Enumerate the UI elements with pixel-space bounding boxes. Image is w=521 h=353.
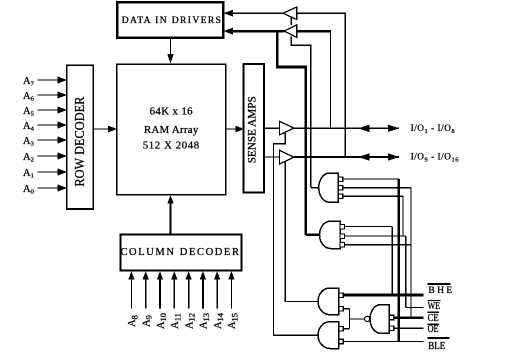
wire bus vertical BHE from G2 pin1 <box>391 227 393 296</box>
wire G1 pin2 to CE bus <box>343 187 411 189</box>
svg-text:A10: A10 <box>156 313 168 329</box>
svg-text:A2: A2 <box>23 152 34 164</box>
label I/O9 - I/O16 <box>411 152 459 164</box>
buffer T2 data-in driver lower <box>284 25 297 38</box>
buffer A output buffer upper <box>279 121 294 135</box>
svg-text:RAM Array: RAM Array <box>144 124 199 136</box>
wire bracket vertical G3/G4/G5 <box>349 309 351 329</box>
wire arrow ROW DECODER to RAM <box>94 126 117 133</box>
node A8 column input arrow <box>127 271 139 327</box>
svg-text:A6: A6 <box>23 91 35 103</box>
label I/O1 - I/O8 <box>411 123 456 135</box>
svg-text:I/O1 - I/O8: I/O1 - I/O8 <box>411 123 456 135</box>
node A13 column input arrow <box>199 271 211 329</box>
box U3 RAM array 64K x 16 <box>117 64 226 194</box>
svg-text:A7: A7 <box>23 76 35 88</box>
wire T2 output to DATA IN DRIVERS thick with arrowhead <box>224 28 285 35</box>
gate G4 2-input AND left-facing <box>318 322 343 349</box>
svg-text:A14: A14 <box>213 312 225 329</box>
wire bus vertical CE from G1 pin2 <box>410 188 412 318</box>
svg-text:A0: A0 <box>23 184 34 196</box>
wire enable from T2 down to gate G1 output net <box>291 37 311 188</box>
node A7 input arrow <box>23 76 67 88</box>
wire T1 input from I/O9 bus <box>297 13 345 157</box>
box U4 SENSE AMPS <box>244 64 265 193</box>
label OE with overline <box>428 324 440 336</box>
wire G2 pin1 to BHE bus <box>345 226 393 228</box>
node A5 input arrow <box>23 106 67 118</box>
label WE with overline <box>428 300 441 312</box>
node A15 column input arrow <box>227 271 239 329</box>
label BHE with overline <box>427 283 452 296</box>
wire enable tick between T1 and T2 <box>290 17 292 25</box>
wire I/O9 line thick with bidirectional arrows <box>294 153 399 160</box>
buffer B output buffer lower <box>279 150 294 164</box>
node A6 input arrow <box>23 91 67 103</box>
svg-text:B H E: B H E <box>428 286 452 296</box>
node A2 input arrow <box>23 152 67 164</box>
node A12 column input arrow <box>184 271 196 329</box>
svg-text:BLE: BLE <box>428 341 445 352</box>
label CE with overline <box>428 312 440 324</box>
gate G2 3-input AND left-facing <box>320 221 345 248</box>
label BLE with overline <box>428 337 450 352</box>
svg-text:512 X 2048: 512 X 2048 <box>143 140 200 152</box>
wire bus vertical BLE thick from G1 pin1 <box>398 179 401 342</box>
svg-text:OE: OE <box>428 324 439 335</box>
wire thick junction from T2 output down to gate G2 output net <box>277 31 305 235</box>
wire G4 pin1 to bracket <box>343 328 349 330</box>
wire BHE line thick <box>343 294 423 297</box>
wire CE line thick <box>394 316 424 319</box>
svg-text:A11: A11 <box>170 313 182 329</box>
wire I/O1 line with bidirectional arrows <box>294 125 399 132</box>
svg-text:DATA IN DRIVERS: DATA IN DRIVERS <box>122 15 223 26</box>
node A11 column input arrow <box>170 271 182 329</box>
wire WE line <box>406 307 424 309</box>
svg-text:ROW DECODER: ROW DECODER <box>72 97 87 187</box>
wire arrow RAM to SENSE AMPS <box>226 126 244 133</box>
wire OE line <box>394 327 424 329</box>
wire SENSE AMPS to buffer B <box>264 156 279 158</box>
wire T1 output to DATA IN DRIVERS with arrowhead <box>224 10 284 17</box>
svg-text:A8: A8 <box>127 315 139 327</box>
svg-text:A12: A12 <box>184 313 196 329</box>
wire BLE line <box>343 341 423 343</box>
svg-text:I/O9 - I/O16: I/O9 - I/O16 <box>411 152 459 164</box>
node A1 input arrow <box>23 168 67 180</box>
gate G3 2-input AND left-facing <box>318 288 343 315</box>
node A4 input arrow <box>23 121 67 133</box>
wire G2 pin2 to WE bus <box>345 235 406 237</box>
wire G5 output to bracket <box>350 318 365 320</box>
node A3 input arrow <box>23 136 67 148</box>
wire G1 output to enable vertical <box>311 187 319 189</box>
wire enable from buffer A down to gate G4 output <box>273 133 317 335</box>
svg-text:WE: WE <box>428 301 441 312</box>
wire arrow COLUMN DECODER up to RAM <box>167 195 174 234</box>
buffer T1 data-in driver upper <box>283 7 297 20</box>
wire bus vertical WE from G2 pin2 corner <box>405 236 407 308</box>
svg-text:A5: A5 <box>23 106 34 118</box>
svg-text:A4: A4 <box>23 121 35 133</box>
wire SENSE AMPS to buffer A <box>264 127 279 129</box>
wire arrow DATA IN DRIVERS down to RAM <box>167 38 173 64</box>
gate G5 2-input NAND left-facing with bubble <box>365 305 394 334</box>
svg-text:A9: A9 <box>142 315 154 327</box>
wire T2 input from I/O1 bus <box>297 30 331 128</box>
wire G1 pin1 to BLE bus <box>343 178 399 180</box>
wire enable from buffer B down to gate G3 output <box>285 162 317 302</box>
svg-text:COLUMN DECODER: COLUMN DECODER <box>120 247 240 258</box>
svg-text:CE: CE <box>428 313 439 324</box>
svg-text:A13: A13 <box>199 313 211 329</box>
svg-text:A1: A1 <box>23 168 34 180</box>
svg-text:64K x 16: 64K x 16 <box>150 105 194 117</box>
wire G2 output thick to DATA IN net <box>306 234 320 237</box>
node A14 column input arrow <box>213 271 225 329</box>
node A10 column input arrow <box>156 271 168 329</box>
svg-text:A15: A15 <box>227 313 239 329</box>
node A0 input arrow <box>23 184 67 196</box>
wire G1 pin3 to WE bus <box>343 195 403 197</box>
box U1 DATA IN DRIVERS <box>117 2 223 38</box>
svg-text:SENSE AMPS: SENSE AMPS <box>247 96 259 163</box>
wire G3 pin2 to bracket <box>343 308 349 310</box>
wire G2 pin3 to CE bus <box>345 244 412 246</box>
wire bus vertical jog G1 pin3 to G2 pin2 <box>402 196 404 236</box>
box U2 ROW DECODER <box>67 65 94 209</box>
box U5 COLUMN DECODER <box>120 235 241 271</box>
node A9 column input arrow <box>142 271 154 327</box>
gate G1 3-input AND left-facing <box>319 173 343 202</box>
svg-text:A3: A3 <box>23 136 34 148</box>
